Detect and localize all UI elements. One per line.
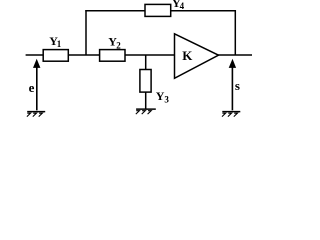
admittance block Y1: [43, 50, 68, 62]
output arrow s: [231, 64, 233, 110]
svg-text:3: 3: [164, 95, 169, 105]
svg-text:K: K: [182, 48, 193, 63]
wire: left feedback vertical: [85, 10, 87, 55]
svg-text:4: 4: [180, 1, 185, 11]
wire: main horizontal net at y=55: [26, 54, 252, 56]
admittance block Y3 (shunt): [140, 70, 151, 93]
svg-text:1: 1: [57, 39, 62, 49]
admittance block Y4 (feedback): [145, 4, 171, 16]
svg-text:e: e: [29, 80, 35, 95]
wire: right feedback vertical: [234, 10, 236, 56]
ground (e): [27, 112, 45, 117]
wire: Y3 branch vertical upper: [145, 55, 147, 70]
ground (s): [222, 112, 240, 117]
amplifier K (triangle): [175, 34, 219, 79]
svg-text:2: 2: [116, 41, 121, 51]
admittance block Y2: [100, 50, 125, 62]
svg-text:s: s: [235, 78, 240, 93]
wire: feedback top horizontal: [85, 10, 236, 12]
ground (Y3): [136, 109, 156, 114]
input source arrow e: [36, 64, 38, 110]
wire: Y3 branch vertical lower: [145, 92, 147, 110]
